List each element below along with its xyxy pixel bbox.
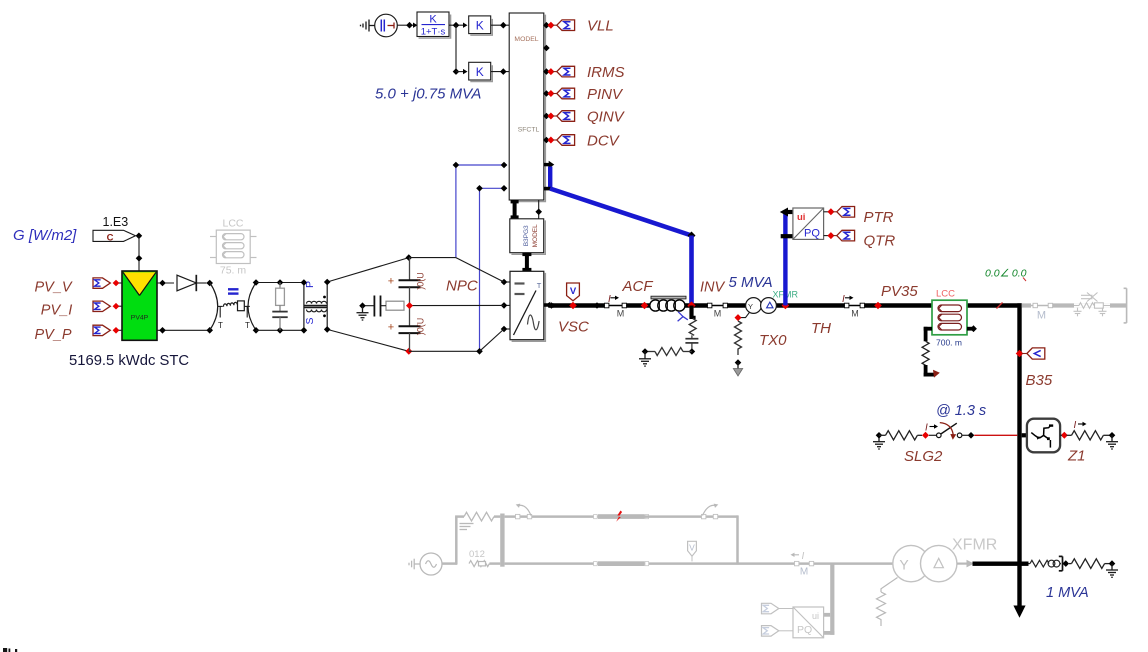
- grey ammeter M gap: [1031, 303, 1053, 322]
- node: [500, 22, 507, 29]
- node: [689, 348, 696, 355]
- output tag IRMS: [557, 66, 575, 77]
- grey tag 2: [762, 626, 794, 637]
- grey top rail with resistor: [455, 512, 500, 529]
- svg-text:SFCTL: SFCTL: [518, 127, 540, 134]
- node: [136, 233, 143, 240]
- dc chopper resistor box: [238, 301, 245, 311]
- node: [594, 302, 601, 309]
- wire: [363, 305, 375, 307]
- svg-text:@ 1.3 s: @ 1.3 s: [936, 403, 986, 419]
- wye symbol (blue): [678, 312, 688, 321]
- grey top rail continue: [645, 515, 739, 518]
- source circle (file-read component): [375, 14, 398, 37]
- svg-text:I: I: [802, 551, 805, 562]
- wire down to PV: [138, 236, 140, 271]
- grey feeder bus vertical: [500, 514, 504, 567]
- svg-text:K: K: [476, 19, 484, 33]
- svg-text:P: P: [304, 281, 316, 288]
- grey series RL with bypass: [1074, 293, 1110, 309]
- gain block K (upper): [469, 16, 493, 35]
- equals sign (dc): [228, 289, 239, 293]
- ACF reactor L1: [650, 296, 686, 311]
- svg-text:5.0 + j0.75 MVA: 5.0 + j0.75 MVA: [375, 86, 481, 103]
- red wire to bus: [974, 434, 1017, 436]
- svg-text:T: T: [245, 321, 250, 330]
- transformer T1 right rail: [326, 282, 328, 329]
- ammeter M3 gap: [842, 294, 865, 319]
- node: [501, 162, 508, 169]
- pin PTR: [824, 208, 837, 215]
- thick blue wire diagonal to INV: [550, 189, 692, 236]
- svg-text:PV35: PV35: [881, 283, 918, 300]
- grey neutral resistor under Y: [877, 578, 898, 626]
- pin PINV: [543, 90, 557, 97]
- B35 bottom arrow: [1013, 606, 1025, 618]
- clipped text fragment bottom-left: [3, 648, 17, 652]
- capacitor C2 (lower dc-link): [388, 306, 426, 352]
- output tag QTR: [837, 230, 855, 241]
- 1 MVA load branch: [1029, 560, 1062, 567]
- gain block K (lower): [469, 62, 493, 81]
- grey bus continuation right: [1022, 303, 1127, 307]
- input tag PV_I: [93, 301, 110, 311]
- pin DCV: [543, 137, 557, 144]
- ground: [639, 352, 651, 367]
- transformer T1 left rail: [303, 283, 305, 331]
- svg-text:QINV: QINV: [587, 108, 626, 125]
- grey bottom rail: [505, 562, 598, 565]
- red fault bolt: [616, 511, 622, 522]
- svg-text:ui: ui: [797, 212, 805, 223]
- svg-text:LCC: LCC: [222, 218, 243, 230]
- svg-text:1 MVA: 1 MVA: [1046, 585, 1089, 601]
- node (red): [1061, 432, 1068, 439]
- node (red): [641, 302, 649, 310]
- cable block LCC (700 m): [932, 300, 967, 335]
- fault block Z1 stub: [1022, 433, 1028, 437]
- transfer function block K/(1+T s): [417, 12, 451, 38]
- greyed LCC cable block (disabled): [210, 230, 257, 263]
- voltage meter V1: [567, 283, 580, 301]
- svg-text:M: M: [851, 309, 859, 319]
- svg-text:M: M: [1037, 310, 1046, 322]
- svg-text:PV_I: PV_I: [41, 303, 72, 319]
- svg-text:Y: Y: [748, 302, 753, 311]
- load resistor: [1069, 559, 1110, 569]
- LCC right bottom stub: [967, 325, 977, 332]
- ground (rotated) at source input: [361, 20, 375, 32]
- svg-text:VSC: VSC: [558, 319, 589, 336]
- node: [642, 348, 649, 355]
- controller block U1 SFCTL: [509, 13, 545, 202]
- thick blue wire up to PQ meter: [783, 211, 787, 306]
- svg-text:ACF: ACF: [622, 278, 654, 295]
- svg-text:QTR: QTR: [864, 233, 896, 250]
- grey resistor 012: [469, 561, 500, 567]
- thick blue wire stub right of SFCTL: [544, 161, 554, 191]
- svg-text:I: I: [925, 423, 928, 434]
- PQ meter stubs: [780, 208, 788, 217]
- ammeter M1 gap: [604, 294, 627, 319]
- breaker switch SLG2: [929, 423, 968, 440]
- diode D1: [177, 275, 207, 291]
- shunt capacitor C4: [685, 335, 698, 351]
- svg-text:G [W/m2]: G [W/m2]: [13, 227, 77, 244]
- wire: [491, 24, 510, 26]
- fault branch SLG2: ground: [873, 435, 885, 449]
- svg-text:M: M: [714, 309, 722, 319]
- grey breaker 1: [516, 504, 532, 519]
- shunt resistor R3: [689, 319, 696, 336]
- node: [968, 432, 975, 439]
- grey riser: [455, 517, 458, 565]
- node DC- (red): [405, 348, 412, 355]
- svg-text:ui: ui: [812, 611, 819, 621]
- node: [500, 68, 507, 75]
- node (red) on B35: [1016, 350, 1024, 358]
- node (red): [922, 432, 929, 439]
- svg-text:T: T: [537, 281, 542, 290]
- node (red) right of T2: [782, 302, 790, 310]
- node on blue wire: [688, 232, 696, 240]
- main bus VSC to B35: [552, 303, 1022, 307]
- node: [159, 327, 166, 334]
- grey top rail segment: [505, 515, 598, 518]
- wire to input tag: [1022, 353, 1027, 355]
- input tag PV_V: [93, 278, 110, 288]
- svg-text:VLL: VLL: [587, 18, 614, 35]
- grey V meter: [688, 541, 697, 561]
- svg-text:+: +: [388, 322, 394, 334]
- grey line section bottom: [598, 561, 645, 566]
- wire: [449, 24, 466, 26]
- node: [206, 280, 213, 287]
- wire PV top output: [157, 282, 174, 284]
- grey branch to PQ meter: [830, 564, 834, 635]
- svg-text:)0(U: )0(U: [416, 318, 426, 336]
- grey shunt caps: [1074, 308, 1107, 317]
- VSC output thick stub: [544, 302, 551, 309]
- svg-text:PQ: PQ: [804, 228, 820, 240]
- svg-text:PINV: PINV: [587, 86, 624, 103]
- pin 2 (unused junction): [543, 45, 550, 52]
- node INV (red): [687, 301, 695, 309]
- wire lower diagonal transformer to DC-: [327, 329, 409, 351]
- grey PQ meter block: [793, 607, 824, 638]
- T stub right: [245, 306, 250, 317]
- svg-text:S: S: [304, 317, 316, 324]
- red tick on bus: [997, 303, 1003, 309]
- svg-text:V: V: [570, 286, 577, 297]
- shunt damp resistor R4 (horizontal): [645, 348, 692, 356]
- thick gate stub SFCTL to B3PG3: [511, 200, 519, 219]
- svg-text:700. m: 700. m: [936, 338, 962, 348]
- pin IRMS: [543, 68, 557, 75]
- node: [406, 22, 413, 29]
- T stub left: [218, 306, 223, 317]
- VSC left pins: [504, 282, 510, 329]
- svg-text:MODEL: MODEL: [532, 224, 539, 248]
- grey bottom rail continue: [645, 562, 894, 565]
- svg-text:1.E3: 1.E3: [103, 215, 129, 229]
- node: [136, 255, 143, 262]
- wire diagonal to VSC bottom pin: [480, 329, 505, 351]
- svg-text:)0(U: )0(U: [416, 272, 426, 290]
- dc midpoint wire to VSC mid pin: [410, 304, 505, 306]
- dc chopper inductor: [223, 302, 237, 307]
- cable arc left: [210, 283, 218, 331]
- node shunt top/bottom: [277, 279, 284, 286]
- svg-text:+: +: [388, 276, 394, 288]
- node: [501, 185, 508, 192]
- grey AC source: [409, 553, 442, 575]
- node: [359, 302, 366, 309]
- svg-text:DCV: DCV: [587, 132, 621, 149]
- svg-text:V: V: [689, 543, 695, 553]
- node: [876, 432, 883, 439]
- svg-text:I: I: [608, 294, 611, 305]
- svg-text:MODEL: MODEL: [514, 36, 538, 43]
- filter capacitor C3: [272, 312, 287, 318]
- node: [1063, 560, 1070, 567]
- node: [453, 68, 460, 75]
- svg-text:75. m: 75. m: [220, 265, 247, 277]
- wire PV bottom: [157, 329, 210, 331]
- converter block U3 VSC: [510, 271, 545, 341]
- grey ammeter M4: [791, 551, 814, 578]
- node DC+: [406, 254, 413, 261]
- ground: [1106, 435, 1118, 449]
- svg-text:B3PG3: B3PG3: [523, 225, 530, 246]
- snubber resistor R-mid: [386, 301, 404, 310]
- grey breaker 2: [702, 504, 719, 519]
- svg-text:PV_P: PV_P: [35, 327, 72, 343]
- wire down to second gain: [455, 25, 457, 71]
- svg-text:SLG2: SLG2: [904, 448, 943, 465]
- cable arc right: [248, 283, 256, 331]
- svg-text:TX0: TX0: [759, 332, 787, 349]
- thick blue wire down to INV: [689, 236, 694, 306]
- output tag VLL: [557, 20, 575, 31]
- thick gate stub B3PG3 to VSC: [522, 253, 531, 272]
- svg-text:M: M: [617, 309, 625, 319]
- shunt branch at INV: thick stub: [689, 306, 695, 320]
- ammeter M2 gap: [707, 303, 728, 319]
- svg-text:Z1: Z1: [1067, 448, 1086, 465]
- svg-text:0.0∠ 0.0: 0.0∠ 0.0: [985, 268, 1027, 280]
- wire DC+ horizontal: [409, 257, 456, 259]
- svg-text:PTR: PTR: [864, 209, 894, 226]
- PV left pins: [116, 283, 122, 330]
- node (red): [874, 302, 882, 310]
- node: [476, 348, 483, 355]
- PV array PV4P: [122, 271, 157, 340]
- wire: [381, 305, 387, 307]
- input tag B35: [1027, 348, 1045, 359]
- PQ meter block (ui/PQ): [793, 208, 824, 240]
- bracket: [1059, 556, 1063, 570]
- svg-text:5169.5 kWdc STC: 5169.5 kWdc STC: [69, 353, 189, 369]
- svg-text:T: T: [218, 321, 223, 330]
- transformer T2 (5 MVA): [746, 298, 777, 314]
- TX0 ground branch: [733, 312, 749, 376]
- svg-text:INV: INV: [700, 280, 726, 296]
- svg-text:M: M: [800, 567, 808, 578]
- output tag DCV: [557, 135, 575, 146]
- fault resistor R5: [886, 431, 918, 440]
- node: [1109, 432, 1116, 439]
- pin QINV: [543, 113, 557, 120]
- pin QTR: [824, 232, 837, 239]
- output tag QINV: [557, 111, 575, 122]
- firing pulse block U2 B3PG3: [510, 219, 546, 255]
- svg-text:PV4P: PV4P: [131, 315, 149, 322]
- grey tag 1: [762, 603, 794, 614]
- svg-text:NPC: NPC: [446, 278, 478, 295]
- transformer T1 windings: [305, 301, 328, 312]
- grey end bracket: [1124, 288, 1127, 323]
- grey transformer XFMR: [893, 545, 957, 581]
- grey arrow stub after delta: [957, 562, 968, 564]
- svg-text:1+T·s: 1+T·s: [421, 27, 446, 38]
- wire bottom rail to transformer: [256, 329, 304, 331]
- resistor R6: [1067, 431, 1110, 440]
- LCC left bottom branch: [922, 327, 940, 378]
- node (red) on bus: [569, 302, 577, 310]
- svg-text:K: K: [429, 14, 437, 26]
- svg-text:C: C: [107, 232, 114, 243]
- blue signal wire A from SFCTL to upper DC node: [456, 165, 507, 258]
- svg-text:TH: TH: [811, 320, 831, 337]
- node arc right top/bottom: [253, 279, 260, 286]
- filter resistor R2 (vertical box): [276, 283, 285, 312]
- wire: [491, 71, 510, 73]
- svg-text:I: I: [842, 294, 845, 305]
- node: [535, 209, 542, 216]
- ground midpoint: [357, 306, 369, 320]
- wire: [397, 24, 413, 26]
- svg-text:B35: B35: [1026, 372, 1053, 389]
- capacitor C-mid: [374, 296, 380, 317]
- svg-text:5 MVA: 5 MVA: [729, 274, 773, 291]
- svg-text:I: I: [1074, 420, 1077, 431]
- output tag PTR: [837, 207, 855, 218]
- wire DC- horizontal: [409, 350, 480, 352]
- wire upper diagonal transformer to DC+: [327, 258, 409, 282]
- capacitor C1 (upper dc-link): [388, 258, 426, 306]
- fault block Z1: [1027, 419, 1060, 453]
- pin VLL: [543, 22, 557, 29]
- black bus from XFMR to B35: [973, 562, 1029, 566]
- svg-text:LCC: LCC: [936, 289, 955, 300]
- bus B35 vertical: [1017, 303, 1021, 607]
- grey wire to riser: [442, 562, 457, 565]
- grey corner down: [736, 515, 739, 564]
- wire diagonal to VSC top pin: [456, 258, 504, 282]
- svg-text:PV_V: PV_V: [35, 280, 73, 296]
- blue signal wire B from SFCTL to lower DC node: [480, 188, 508, 351]
- output tag PINV: [557, 88, 575, 99]
- input tag PV_P: [93, 325, 110, 335]
- ground: [1106, 564, 1118, 578]
- node: [1109, 560, 1116, 567]
- svg-text:K: K: [476, 65, 484, 79]
- svg-text:PQ: PQ: [797, 624, 812, 636]
- svg-text:Y: Y: [899, 557, 909, 573]
- svg-text:XFMR: XFMR: [952, 537, 997, 554]
- wire top rail to transformer: [256, 282, 304, 284]
- svg-text:012: 012: [469, 549, 485, 560]
- node: [159, 280, 166, 287]
- constant tag C: [93, 230, 136, 243]
- grey line section with fault bolt: [598, 514, 645, 519]
- svg-text:IRMS: IRMS: [587, 64, 625, 81]
- thin wire SFCTL to B3PG3: [538, 200, 540, 219]
- node: [453, 22, 460, 29]
- node midpoint (red): [406, 302, 413, 309]
